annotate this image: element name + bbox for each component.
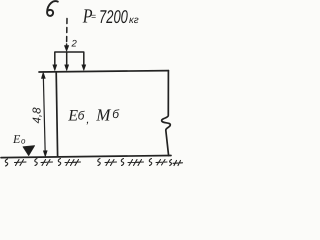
load label P = 7200 кг	[82, 6, 139, 28]
datum label Е0	[12, 132, 26, 146]
svg-text:М: М	[95, 106, 111, 125]
svg-text:7200: 7200	[99, 6, 128, 27]
soil block right edge with break	[162, 71, 171, 156]
ground hatch squiggle 2	[35, 159, 37, 166]
svg-text:кг: кг	[129, 15, 139, 26]
ground hatch squiggle 6	[149, 159, 151, 166]
force line P dashed	[66, 19, 68, 44]
ground hatch squiggle 1	[5, 159, 7, 166]
bracket arrowhead middle	[65, 65, 69, 71]
soil labels Еб Мб	[67, 106, 120, 127]
ground hatch squiggle 4	[98, 159, 100, 166]
svg-text:б: б	[112, 107, 120, 121]
ground hatch squiggle 7	[170, 160, 172, 166]
ground hatch group 4	[105, 160, 117, 166]
svg-text:о: о	[21, 137, 26, 146]
svg-text:4,8: 4,8	[32, 107, 44, 124]
svg-text:б: б	[78, 109, 86, 123]
datum benchmark triangle	[23, 146, 35, 156]
ground hatch group 3	[65, 160, 81, 166]
ground base line	[1, 156, 171, 158]
footing width bracket	[55, 52, 84, 66]
figure label б	[47, 1, 58, 16]
ground surface line	[39, 71, 168, 72]
ground hatch group 2	[41, 160, 53, 166]
svg-text:=: =	[91, 11, 96, 21]
force P arrowhead	[64, 46, 68, 52]
svg-text:2: 2	[71, 39, 78, 50]
ground hatch group 5	[128, 160, 144, 166]
ground hatch squiggle 3	[58, 159, 60, 166]
svg-text:,: ,	[86, 112, 89, 126]
depth dim arrowhead top	[41, 72, 45, 78]
bracket arrowhead left	[53, 65, 57, 71]
ground hatch group 1	[15, 160, 27, 166]
ground hatch group 6	[156, 160, 167, 166]
footing middle shaft	[66, 52, 68, 66]
ground hatch group 7	[173, 161, 183, 166]
ground hatch squiggle 5	[121, 159, 123, 166]
depth dimension line	[43, 75, 45, 154]
svg-text:Е: Е	[12, 132, 21, 146]
depth dim arrowhead bottom	[43, 151, 47, 157]
soil block left edge	[56, 72, 57, 156]
bracket arrowhead right	[82, 65, 86, 71]
